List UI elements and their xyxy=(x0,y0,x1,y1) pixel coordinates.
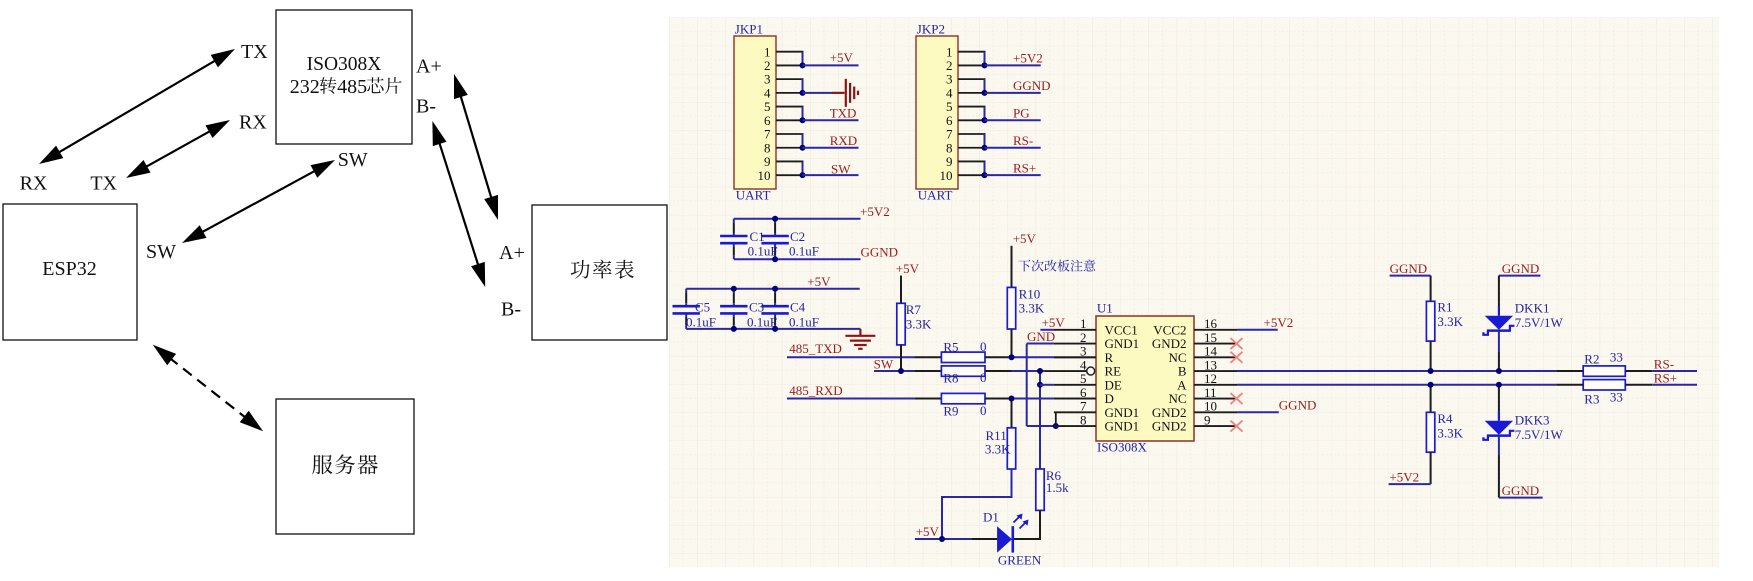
svg-text:3.3K: 3.3K xyxy=(985,442,1011,457)
svg-text:DKK1: DKK1 xyxy=(1515,301,1550,316)
svg-text:VCC2: VCC2 xyxy=(1153,322,1186,337)
svg-text:A: A xyxy=(1177,377,1187,392)
svg-text:GGND: GGND xyxy=(1279,398,1317,413)
svg-text:+5V2: +5V2 xyxy=(1264,315,1294,330)
svg-text:10: 10 xyxy=(758,168,771,183)
svg-text:10: 10 xyxy=(940,168,953,183)
svg-text:NC: NC xyxy=(1168,350,1186,365)
svg-text:RX: RX xyxy=(20,173,48,195)
svg-text:8: 8 xyxy=(1080,412,1087,427)
svg-text:R5: R5 xyxy=(943,340,958,355)
svg-text:3.3K: 3.3K xyxy=(1437,426,1463,441)
svg-text:A+: A+ xyxy=(499,242,525,264)
svg-text:C5: C5 xyxy=(695,300,710,315)
svg-text:R8: R8 xyxy=(943,370,958,385)
svg-text:ESP32: ESP32 xyxy=(42,258,96,280)
svg-text:9: 9 xyxy=(1204,412,1211,427)
svg-text:B: B xyxy=(1178,364,1187,379)
svg-text:0.1uF: 0.1uF xyxy=(747,315,777,330)
svg-text:3.3K: 3.3K xyxy=(1019,301,1045,316)
svg-text:A+: A+ xyxy=(416,56,442,78)
svg-text:GGND: GGND xyxy=(1390,261,1428,276)
svg-text:0: 0 xyxy=(980,403,987,418)
svg-text:6: 6 xyxy=(1080,385,1087,400)
svg-text:+5V: +5V xyxy=(916,524,940,539)
svg-text:0.1uF: 0.1uF xyxy=(789,243,819,258)
svg-text:+5V2: +5V2 xyxy=(1389,469,1419,484)
svg-text:D: D xyxy=(1105,391,1114,406)
svg-text:232: 232 xyxy=(290,76,320,98)
svg-text:33: 33 xyxy=(1610,390,1623,405)
svg-text:C4: C4 xyxy=(790,300,806,315)
svg-text:TXD: TXD xyxy=(830,106,857,121)
svg-text:RS-: RS- xyxy=(1013,133,1033,148)
svg-text:16: 16 xyxy=(1204,316,1218,331)
svg-text:GND2: GND2 xyxy=(1152,336,1187,351)
svg-text:13: 13 xyxy=(1204,357,1217,372)
svg-text:15: 15 xyxy=(1204,330,1217,345)
svg-text:0.1uF: 0.1uF xyxy=(789,315,819,330)
svg-text:ISO308X: ISO308X xyxy=(307,54,382,75)
svg-text:RXD: RXD xyxy=(830,133,857,148)
svg-text:R3: R3 xyxy=(1584,392,1599,407)
svg-text:NC: NC xyxy=(1168,391,1186,406)
svg-text:R7: R7 xyxy=(906,302,922,317)
svg-text:R10: R10 xyxy=(1019,287,1041,302)
svg-text:GGND: GGND xyxy=(861,245,899,260)
svg-text:JKP1: JKP1 xyxy=(735,22,763,37)
svg-text:GGND: GGND xyxy=(1502,483,1540,498)
svg-text:0.1uF: 0.1uF xyxy=(686,315,716,330)
svg-text:D1: D1 xyxy=(983,510,999,525)
svg-text:DE: DE xyxy=(1105,377,1122,392)
svg-text:SW: SW xyxy=(874,356,894,371)
svg-text:GGND: GGND xyxy=(1502,261,1540,276)
svg-text:3: 3 xyxy=(1080,344,1087,359)
svg-text:+5V: +5V xyxy=(1042,315,1066,330)
svg-text:14: 14 xyxy=(1204,344,1218,359)
svg-text:+5V2: +5V2 xyxy=(1013,51,1043,66)
svg-text:C1: C1 xyxy=(750,229,765,244)
svg-text:2: 2 xyxy=(1080,330,1087,345)
svg-text:+5V: +5V xyxy=(807,274,831,289)
svg-text:33: 33 xyxy=(1610,350,1623,365)
svg-text:C2: C2 xyxy=(790,229,805,244)
svg-text:3.3K: 3.3K xyxy=(906,316,932,331)
svg-text:4: 4 xyxy=(1080,357,1087,372)
svg-text:SW: SW xyxy=(831,161,851,176)
svg-text:10: 10 xyxy=(1204,399,1217,414)
svg-text:7: 7 xyxy=(1080,399,1087,414)
svg-text:1: 1 xyxy=(1080,316,1087,331)
svg-text:RS+: RS+ xyxy=(1654,371,1677,386)
svg-text:485: 485 xyxy=(337,76,367,98)
svg-text:RS+: RS+ xyxy=(1013,160,1036,175)
svg-text:12: 12 xyxy=(1204,371,1217,386)
svg-text:JKP2: JKP2 xyxy=(917,22,945,37)
svg-text:+5V: +5V xyxy=(1013,231,1037,246)
svg-text:DKK3: DKK3 xyxy=(1515,413,1550,428)
svg-text:VCC1: VCC1 xyxy=(1105,322,1138,337)
svg-text:PG: PG xyxy=(1013,105,1030,120)
svg-text:R2: R2 xyxy=(1584,352,1599,367)
svg-text:GND2: GND2 xyxy=(1152,405,1187,420)
svg-text:RX: RX xyxy=(239,112,267,134)
svg-text:GGND: GGND xyxy=(1013,78,1051,93)
svg-text:RS-: RS- xyxy=(1654,356,1674,371)
svg-text:UART: UART xyxy=(918,188,953,203)
svg-text:GND: GND xyxy=(1027,329,1055,344)
svg-text:TX: TX xyxy=(90,173,117,195)
svg-text:0.1uF: 0.1uF xyxy=(748,243,778,258)
svg-text:GND2: GND2 xyxy=(1152,419,1187,434)
svg-text:SW: SW xyxy=(146,241,176,263)
svg-text:7.5V/1W: 7.5V/1W xyxy=(1515,315,1564,330)
svg-text:GND1: GND1 xyxy=(1105,419,1140,434)
svg-text:5: 5 xyxy=(1080,371,1087,386)
svg-text:RE: RE xyxy=(1105,364,1122,379)
svg-text:+5V2: +5V2 xyxy=(860,204,890,219)
svg-text:11: 11 xyxy=(1204,385,1217,400)
svg-text:485_TXD: 485_TXD xyxy=(789,341,842,356)
svg-text:UART: UART xyxy=(736,188,771,203)
svg-text:7.5V/1W: 7.5V/1W xyxy=(1515,427,1564,442)
svg-text:+5V: +5V xyxy=(830,50,854,65)
svg-text:+5V: +5V xyxy=(896,261,920,276)
svg-text:ISO308X: ISO308X xyxy=(1097,440,1147,455)
svg-text:GREEN: GREEN xyxy=(998,553,1042,568)
svg-text:GND1: GND1 xyxy=(1105,336,1140,351)
svg-text:0: 0 xyxy=(980,339,987,354)
svg-text:R1: R1 xyxy=(1437,300,1452,315)
svg-text:TX: TX xyxy=(241,41,268,63)
svg-text:R: R xyxy=(1105,350,1114,365)
svg-text:B-: B- xyxy=(416,96,436,118)
svg-text:0: 0 xyxy=(980,370,987,385)
svg-text:GND1: GND1 xyxy=(1105,405,1140,420)
svg-text:SW: SW xyxy=(338,149,368,171)
svg-text:R4: R4 xyxy=(1437,411,1453,426)
svg-text:485_RXD: 485_RXD xyxy=(789,383,842,398)
svg-text:C3: C3 xyxy=(749,300,764,315)
svg-text:1.5k: 1.5k xyxy=(1046,480,1069,495)
svg-text:R9: R9 xyxy=(943,404,958,419)
svg-text:3.3K: 3.3K xyxy=(1437,314,1463,329)
svg-text:B-: B- xyxy=(501,299,521,321)
svg-text:U1: U1 xyxy=(1097,301,1113,316)
